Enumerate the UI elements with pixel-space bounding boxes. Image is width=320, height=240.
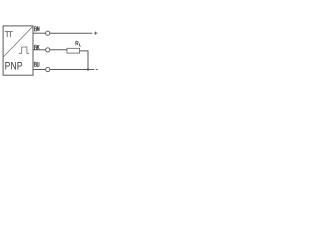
supply - terminal	[96, 69, 98, 71]
wire RL output to BU net	[80, 51, 88, 70]
svg-text:PNP: PNP	[5, 60, 23, 72]
wire BN (brown, +)	[33, 32, 92, 34]
sensor body box (PNP proximity sensor)	[3, 26, 33, 75]
pulse output symbol	[19, 47, 29, 53]
label BN (brown wire)	[35, 27, 40, 32]
wire BK (black, output)	[33, 49, 67, 51]
BK terminal circle	[46, 48, 50, 52]
resistor RL (load)	[67, 48, 80, 53]
wire BU (blue, -)	[33, 69, 94, 71]
inductive sensor symbol (pi)	[5, 32, 13, 37]
label BU (blue wire)	[34, 62, 39, 67]
diagonal divider	[3, 26, 33, 57]
supply + terminal	[94, 32, 97, 35]
junction dot on BU net	[87, 68, 89, 70]
label BK (black wire)	[35, 45, 40, 50]
BN terminal circle	[46, 31, 50, 35]
label RL	[76, 41, 78, 45]
BU terminal circle	[46, 67, 50, 71]
